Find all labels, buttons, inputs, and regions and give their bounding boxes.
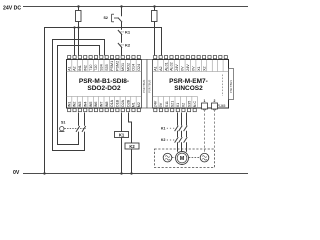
svg-text:AL02: AL02 xyxy=(170,62,174,71)
svg-text:IN3: IN3 xyxy=(78,102,82,108)
svg-text:IN2: IN2 xyxy=(73,102,77,108)
svg-text:K1: K1 xyxy=(125,29,131,34)
svg-text:K1: K1 xyxy=(161,126,165,130)
svg-text:O1B: O1B xyxy=(116,99,120,107)
svg-text:PSR-M-B1-SDI8-: PSR-M-B1-SDI8- xyxy=(79,78,129,85)
svg-text:MO1: MO1 xyxy=(121,63,125,71)
svg-text:IN4: IN4 xyxy=(83,102,87,108)
svg-text:IN6: IN6 xyxy=(94,102,98,108)
svg-text:RJ45: RJ45 xyxy=(218,104,226,108)
svg-text:24V DC: 24V DC xyxy=(3,6,21,12)
svg-text:X1: X1 xyxy=(176,103,180,108)
svg-text:N.C: N.C xyxy=(193,101,197,108)
svg-text:PSR-M-EM7-: PSR-M-EM7- xyxy=(169,78,208,85)
svg-text:S34: S34 xyxy=(100,64,104,71)
svg-text:O24: O24 xyxy=(137,64,141,71)
svg-text:IN5: IN5 xyxy=(89,102,93,108)
svg-text:X1: X1 xyxy=(197,66,201,71)
svg-text:0V: 0V xyxy=(13,170,20,176)
svg-text:IN1: IN1 xyxy=(67,102,71,108)
svg-text:IN1: IN1 xyxy=(78,65,82,71)
svg-text:A1: A1 xyxy=(67,66,71,71)
svg-text:O1A: O1A xyxy=(110,99,114,107)
svg-text:T10: T10 xyxy=(89,65,93,71)
svg-text:O14: O14 xyxy=(132,64,136,71)
svg-text:S11: S11 xyxy=(165,101,169,107)
svg-text:IN7: IN7 xyxy=(100,102,104,108)
svg-text:IN2: IN2 xyxy=(83,65,87,71)
svg-text:0V: 0V xyxy=(159,102,163,107)
svg-text:K1: K1 xyxy=(119,133,125,138)
svg-text:MO2: MO2 xyxy=(126,63,130,71)
svg-text:PSM2: PSM2 xyxy=(116,61,120,71)
svg-text:M2: M2 xyxy=(137,102,141,107)
svg-text:IN8: IN8 xyxy=(105,102,109,108)
svg-text:A1: A1 xyxy=(153,66,157,71)
svg-text:SINCOS2: SINCOS2 xyxy=(174,85,203,92)
svg-text:AL01: AL01 xyxy=(164,62,168,71)
svg-text:S35: S35 xyxy=(105,64,109,71)
svg-text:K2: K2 xyxy=(161,138,165,142)
svg-text:2: 2 xyxy=(214,99,216,103)
svg-text:S35: S35 xyxy=(187,101,191,108)
svg-text:PSM1: PSM1 xyxy=(110,61,114,71)
svg-text:SDO2-DO2: SDO2-DO2 xyxy=(87,85,121,92)
svg-text:X2: X2 xyxy=(182,103,186,108)
svg-text:A2: A2 xyxy=(159,66,163,71)
svg-text:PSR TBUS: PSR TBUS xyxy=(142,80,146,93)
svg-text:T20: T20 xyxy=(94,65,98,71)
svg-text:0V: 0V xyxy=(181,66,185,71)
svg-text:M1: M1 xyxy=(132,102,136,107)
svg-text:24V: 24V xyxy=(175,64,179,71)
svg-text:24V: 24V xyxy=(186,64,190,71)
svg-text:K2: K2 xyxy=(129,144,135,149)
svg-text:0V: 0V xyxy=(191,66,195,71)
svg-text:A2: A2 xyxy=(73,66,77,71)
svg-text:O2B: O2B xyxy=(126,99,130,107)
svg-text:M: M xyxy=(180,156,184,162)
svg-text:24V: 24V xyxy=(154,100,158,107)
svg-text:PSR TBUS: PSR TBUS xyxy=(148,80,152,93)
svg-text:K2: K2 xyxy=(125,42,131,47)
svg-text:S1: S1 xyxy=(61,121,65,125)
svg-text:PSR TBUS: PSR TBUS xyxy=(229,80,233,93)
svg-text:S2: S2 xyxy=(104,16,108,20)
svg-text:1: 1 xyxy=(204,99,206,103)
svg-text:S21: S21 xyxy=(170,101,174,108)
svg-text:X2: X2 xyxy=(202,66,206,71)
svg-text:O2A: O2A xyxy=(121,99,125,107)
